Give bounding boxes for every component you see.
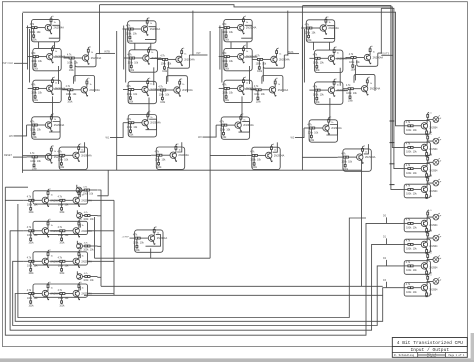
svg-text:100k: 100k (59, 273, 65, 275)
transistor register cell Q1R2 (54, 219, 92, 244)
wire: bit 3 stage D to E link (335, 90, 348, 92)
wire: register output vertical (100, 190, 102, 287)
svg-text:100k: 100k (83, 280, 89, 282)
wire: bit 0 stage A feedback loop (49, 25, 60, 38)
transistor register cell Q0R4 (hold gate) (77, 210, 98, 221)
wire: W1 vertical run (116, 31, 118, 170)
svg-text:100k: 100k (222, 60, 228, 63)
svg-text:1k: 1k (331, 122, 333, 124)
transistor inverter stage Q3B (309, 47, 347, 73)
svg-text:1k: 1k (329, 22, 331, 24)
svg-text:100k: 100k (159, 93, 165, 96)
svg-text:1k: 1k (150, 117, 152, 119)
svg-text:100k: 100k (59, 167, 65, 169)
wire: register row 0 output to bus (88, 199, 115, 201)
transistor inverter stage Q1E (155, 78, 193, 103)
junction W1 (116, 137, 117, 138)
lamp driver Q3L with indicator LP3 (stack 1 row 3) (402, 176, 441, 199)
wire: write strobe W0 into stage F (14, 125, 27, 136)
node flag stack1 row 1 (390, 142, 395, 144)
wire: bit 3 stage G output (364, 144, 369, 154)
svg-text:100k: 100k (257, 71, 263, 73)
svg-text:100k: 100k (32, 137, 38, 139)
wire: bit 1 stage G output (177, 142, 182, 152)
svg-text:1k: 1k (243, 119, 245, 121)
svg-text:100k: 100k (156, 167, 162, 169)
wire: register row 3 link (49, 293, 54, 295)
wire: bit 3 stage F loop (326, 125, 337, 136)
transistor inverter stage Q3E (343, 77, 381, 102)
svg-text:100k: 100k (128, 61, 134, 64)
svg-text:100k: 100k (127, 126, 133, 129)
svg-text:100k: 100k (27, 234, 33, 237)
transistor register cell Q2R1 (23, 250, 61, 275)
wire: bit 0 stage E output loop (74, 76, 95, 93)
svg-text:1k: 1k (81, 150, 83, 152)
wire: register row 2 output to bus (88, 260, 115, 262)
wire: bit 0 stage F to latch (52, 96, 54, 118)
transistor inverter stage Q2F (216, 114, 254, 140)
svg-text:100k: 100k (221, 137, 227, 139)
svg-text:2N2904: 2N2904 (429, 268, 438, 270)
svg-text:100k: 100k (252, 167, 258, 169)
svg-text:100k: 100k (29, 273, 35, 275)
transistor inverter stage Q1B (124, 46, 162, 72)
svg-text:100k: 100k (256, 63, 262, 66)
svg-text:100k: 100k (27, 265, 33, 268)
svg-text:100k: 100k (27, 204, 33, 207)
svg-text:100k: 100k (133, 241, 139, 244)
wire: data bus D1 loop to display row 2 (10, 231, 403, 330)
svg-text:1k: 1k (51, 195, 53, 197)
svg-text:2N2904A: 2N2904A (81, 230, 92, 233)
wire: bit 1 stage E output loop (166, 76, 187, 93)
node flag stack1 row 0 (390, 120, 395, 122)
svg-text:100k: 100k (127, 93, 133, 96)
wire: bit 0 stage B to C link (54, 56, 69, 58)
wire: bit 2 stage G input (210, 155, 247, 157)
svg-text:100k: 100k (313, 93, 319, 96)
transistor inverter stage Q2B (219, 45, 257, 71)
wire: write strobe W3 into stage F (295, 128, 304, 138)
transistor register cell Q3R1 (23, 282, 61, 307)
svg-text:W2: W2 (198, 136, 202, 139)
svg-text:100k: 100k (222, 92, 228, 95)
wire: W3 vertical run (301, 6, 303, 170)
svg-text:100k: 100k (31, 60, 37, 63)
wire: INP/CLK feed (14, 62, 28, 64)
junction W3 (302, 137, 303, 138)
wire: bit 1 stage G input (117, 154, 152, 156)
wire: register upper gate loop (97, 170, 108, 196)
svg-text:1k: 1k (54, 119, 56, 121)
svg-text:100k: 100k (406, 291, 412, 294)
transistor inverter stage Q0F (27, 113, 65, 139)
svg-text:100k: 100k (59, 243, 65, 245)
svg-text:100k: 100k (29, 243, 35, 245)
svg-text:2N2904: 2N2904 (429, 290, 438, 292)
node flag stack1 row 2 (390, 163, 395, 165)
transistor inverter stage Q3F (304, 116, 342, 142)
svg-text:100k: 100k (224, 100, 230, 102)
svg-text:Page 1 of 1: Page 1 of 1 (449, 354, 465, 357)
wire: data bus D2 loop to display row 3 (13, 261, 403, 325)
wire: bit 1 stage A to B connectors (135, 43, 151, 50)
wire: bit 2 stage D to E link (245, 88, 256, 90)
svg-text:2N2904A: 2N2904A (54, 27, 65, 30)
wire: bit 2 latch cross-coupling (250, 66, 264, 84)
svg-text:100k: 100k (58, 234, 64, 237)
svg-text:W0: W0 (9, 135, 13, 138)
wire: bit 1 stage B to C link (150, 57, 163, 59)
svg-text:100k: 100k (58, 265, 64, 268)
wire: long output bus to display row 4 (101, 285, 383, 287)
transistor inverter stage Q0G (54, 144, 92, 170)
wire: register row 2 link (49, 260, 54, 262)
wire: bit 1 stage F loop (146, 119, 157, 130)
svg-text:100k: 100k (33, 68, 39, 70)
wire: bit 2 stage B to C link (245, 56, 258, 58)
transistor inverter stage Q3C (345, 46, 383, 71)
junction bit 1 output node (192, 54, 193, 55)
title block row dividers (392, 347, 467, 353)
wire: bit 3 stage C output riser (378, 8, 382, 53)
transistor register cell Q2R4 (hold gate) (77, 271, 98, 282)
svg-text:2N2904A: 2N2904A (54, 124, 65, 127)
wire: register row 3 output run (84, 294, 383, 296)
svg-text:100k: 100k (309, 140, 315, 142)
svg-text:100k: 100k (126, 32, 132, 35)
wire: bit 2 stage C output riser (284, 11, 288, 55)
svg-text:1k: 1k (91, 52, 93, 54)
wire: register row 3 enclosure loop (33, 284, 88, 297)
wire: bit 2 stage A feedback loop (241, 25, 252, 38)
svg-text:100k: 100k (128, 101, 134, 103)
svg-text:100k: 100k (161, 63, 167, 66)
transistor register cell Q0R1 (23, 189, 61, 214)
svg-text:1k: 1k (82, 225, 84, 227)
svg-text:1k: 1k (246, 83, 248, 85)
svg-text:100k: 100k (224, 39, 230, 41)
wire: bit 0 stage C output riser (96, 5, 100, 54)
svg-text:100k: 100k (406, 227, 412, 230)
wire: D1 flag stub (386, 238, 388, 244)
wire: W0 vertical run (22, 13, 24, 173)
wire: bit 3 stage G input (302, 156, 337, 158)
wire: register row 0 upper feed (5, 187, 28, 200)
svg-text:100k: 100k (58, 297, 64, 300)
wire: register row 2 enclosure loop (33, 252, 88, 265)
wire: bit 3 stage A to B connectors (314, 42, 330, 50)
wire: bit 3 stage C output loop (357, 53, 378, 66)
scan shadow right-bottom edge (471, 333, 474, 360)
wire: strobe return loop (18, 204, 366, 318)
svg-text:100k: 100k (406, 172, 412, 175)
svg-text:100k: 100k (222, 31, 228, 34)
svg-text:100k: 100k (348, 101, 354, 103)
transistor inverter stage Q0B (28, 45, 66, 71)
transistor register cell Q0R2 (54, 189, 92, 214)
wire: bit 2 stage A to B connectors (231, 42, 247, 49)
wire: data bus D0 loop to display row 1 (5, 200, 402, 335)
svg-text:1k: 1k (151, 52, 153, 54)
junction bit 0 output node (99, 53, 100, 54)
transistor inverter stage Q1G (151, 144, 189, 170)
svg-text:1k: 1k (365, 151, 367, 153)
svg-text:100k: 100k (129, 70, 135, 72)
wire: bit 3 stage A feedback loop (324, 26, 335, 39)
svg-text:100k: 100k (346, 92, 352, 95)
svg-text:RESET: RESET (4, 154, 13, 157)
wire: BUS output stub (288, 53, 299, 55)
wire: register gate outputs (97, 190, 101, 277)
svg-text:1k: 1k (370, 83, 372, 85)
wire: bit 2 stage G output (273, 142, 278, 152)
svg-text:100k: 100k (27, 297, 33, 300)
transistor buffer cell QB1 (130, 227, 168, 253)
svg-text:100k: 100k (30, 128, 36, 131)
wire: bus line to output stack row 3 (381, 8, 402, 168)
wire: data bus D3 loop to display row 4 (15, 288, 402, 322)
wire: bit 1 latch cross-coupling (154, 67, 168, 85)
svg-text:1k: 1k (182, 84, 184, 86)
wire: bit 0 latch cross-coupling (59, 66, 76, 84)
svg-text:1k: 1k (51, 225, 53, 227)
svg-text:1k: 1k (54, 151, 56, 153)
wire: register row 3 output to bus (88, 293, 115, 295)
svg-text:1k: 1k (82, 256, 84, 258)
wire: bit 1 stage C output loop (168, 55, 189, 68)
svg-text:1k: 1k (184, 54, 186, 56)
wire: bit3 stage G output drop (361, 160, 363, 286)
svg-text:100k: 100k (69, 70, 75, 72)
svg-text:W3: W3 (291, 137, 295, 140)
svg-text:100k: 100k (29, 212, 35, 214)
lamp driver Q1M with indicator LP5 (stack 2 row 1) (402, 231, 441, 254)
svg-text:INP / CLK: INP / CLK (3, 62, 14, 65)
title block frame (392, 338, 467, 358)
svg-text:1k: 1k (90, 84, 92, 86)
junction W2 (210, 137, 211, 138)
svg-text:1k: 1k (54, 22, 56, 24)
wire: bit 3 stage F to latch (329, 98, 331, 121)
svg-text:2N2904A: 2N2904A (274, 154, 285, 157)
wire: bus line to output stack row 2 (100, 5, 403, 148)
svg-text:INTB: INTB (104, 50, 110, 54)
svg-text:100k: 100k (67, 61, 73, 64)
wire: buffer loop (146, 235, 161, 247)
wire: bit 1 stage F to latch (148, 98, 150, 117)
svg-text:100k: 100k (406, 248, 412, 251)
svg-text:100k: 100k (66, 93, 72, 96)
svg-text:1k: 1k (279, 54, 281, 56)
transistor inverter stage Q2D (219, 77, 257, 103)
wire: bit 0 stage A to B connectors (39, 42, 55, 49)
wire: bit 0 stage G input (23, 155, 55, 157)
svg-text:2N2904: 2N2904 (429, 149, 438, 151)
wire: D2 flag stub (386, 260, 388, 266)
svg-text:1k: 1k (55, 51, 57, 53)
wire: bit 2 stage F loop (239, 122, 250, 133)
svg-text:100k: 100k (160, 102, 166, 104)
transistor register cell Q0R3 (set gate) (76, 185, 97, 196)
node flag stack1 row 3 (390, 184, 395, 186)
wire: D3 flag stub (386, 282, 388, 288)
wire: bit 1 stage C output riser (189, 11, 193, 55)
svg-text:100k: 100k (406, 151, 412, 154)
svg-text:2N2904A: 2N2904A (178, 154, 189, 157)
transistor inverter stage Q0H (reset buffer) (27, 145, 65, 170)
transistor inverter stage Q1A (bit 1 latch) (123, 17, 161, 43)
lamp driver Q0L with indicator LP0 (stack 1 row 0) (402, 112, 441, 135)
svg-text:2N2904A: 2N2904A (54, 156, 65, 159)
svg-text:100k: 100k (305, 31, 311, 34)
transistor register cell Q1R4 (hold gate) (77, 241, 98, 252)
scan shadow bottom edge (0, 358, 474, 362)
lamp driver Q1L with indicator LP1 (stack 1 row 1) (402, 134, 441, 157)
svg-text:100k: 100k (31, 92, 37, 95)
svg-text:2N2904: 2N2904 (429, 225, 438, 227)
svg-text:+5 REF: +5 REF (122, 236, 130, 238)
svg-text:1k: 1k (337, 53, 339, 55)
svg-text:2N2904A: 2N2904A (328, 27, 339, 30)
transistor inverter stage Q0E (62, 78, 100, 103)
wire: bit 0 stage F loop (49, 122, 60, 133)
wire: bit 2 stage F to latch (241, 96, 243, 118)
svg-text:100k: 100k (128, 135, 134, 137)
svg-text:100k: 100k (162, 71, 168, 73)
wire: D0 flag stub (386, 217, 388, 223)
svg-text:4 Bit Transistorized CPU: 4 Bit Transistorized CPU (397, 340, 463, 346)
svg-text:2N2904A: 2N2904A (246, 27, 257, 30)
svg-text:100k: 100k (58, 159, 64, 162)
wire: write strobe W2 into stage F (203, 125, 217, 137)
svg-text:2N2904: 2N2904 (429, 246, 438, 248)
svg-text:2N2904A: 2N2904A (150, 28, 161, 31)
wire: bit 1 left feed pair (124, 26, 126, 83)
svg-text:R. Schmidling: R. Schmidling (394, 353, 415, 357)
svg-text:100k: 100k (250, 159, 256, 162)
transistor inverter stage Q2A (bit 2 latch) (219, 16, 257, 42)
transistor inverter stage Q3A (bit 3 latch) (301, 16, 339, 42)
transistor inverter stage Q0D (28, 77, 66, 103)
svg-text:1k: 1k (55, 83, 57, 85)
svg-text:100k: 100k (135, 250, 141, 252)
junction bit 2 output node (287, 54, 288, 55)
svg-text:1k: 1k (51, 288, 53, 290)
lamp driver Q2L with indicator LP2 (stack 1 row 2) (402, 155, 441, 178)
svg-text:1k: 1k (246, 22, 248, 24)
title block column dividers (418, 353, 446, 358)
svg-text:2N2904A: 2N2904A (81, 260, 92, 263)
wire: register row 0 enclosure loop (33, 191, 88, 204)
transistor inverter stage Q2G (247, 144, 285, 170)
transistor inverter stage Q1F (123, 111, 161, 137)
svg-text:1k: 1k (179, 149, 181, 151)
wire: bit 0 stage G output (80, 142, 85, 152)
wire: register output bus vertical (113, 200, 115, 295)
wire: register row 1 enclosure loop (33, 221, 88, 234)
svg-text:1k: 1k (274, 150, 276, 152)
svg-text:1k: 1k (157, 232, 159, 234)
wire: W2 vertical to lower loop (209, 31, 211, 258)
transistor inverter stage Q2E (251, 78, 289, 103)
wire: bus line to output stack row 4 (302, 6, 402, 190)
svg-text:OUT3: OUT3 (382, 52, 389, 56)
wire: register row 0 gate tie (79, 193, 81, 197)
junction W0 (22, 135, 23, 136)
svg-text:INT: INT (197, 51, 202, 55)
svg-text:100k: 100k (256, 102, 262, 104)
svg-text:100k: 100k (224, 68, 230, 70)
transistor register cell Q3R2 (54, 282, 92, 307)
svg-text:100k: 100k (406, 193, 412, 196)
wire: register row 3 gate tie (79, 286, 81, 290)
svg-text:100k: 100k (155, 159, 161, 162)
svg-text:2N2904: 2N2904 (429, 128, 438, 130)
svg-text:2N2904A: 2N2904A (150, 122, 161, 125)
svg-text:2N2904A: 2N2904A (365, 156, 376, 159)
lamp driver Q3M with indicator LP7 (stack 2 row 3) (402, 274, 441, 297)
svg-text:BUS: BUS (288, 50, 294, 54)
wire: register row 1 link (49, 230, 54, 232)
wire: register row 0 link (49, 199, 54, 201)
lamp driver Q0M with indicator LP4 (stack 2 row 0) (402, 210, 441, 233)
svg-text:1k: 1k (150, 84, 152, 86)
transistor inverter stage Q3D (309, 79, 347, 105)
svg-text:2N2904A: 2N2904A (331, 127, 342, 130)
wire: write strobe W1 into stage F (110, 123, 123, 138)
transistor inverter stage Q3G (338, 146, 376, 172)
wire: register output vertical 2 (94, 217, 96, 258)
wire: bit 3 left feed pair (302, 26, 304, 83)
svg-text:100k: 100k (313, 62, 319, 65)
svg-text:1k: 1k (373, 52, 375, 54)
svg-text:2N2904A: 2N2904A (81, 154, 92, 157)
svg-text:100k: 100k (406, 129, 412, 132)
wire: bit 3 stage B to C link (335, 58, 350, 60)
wire: bit 0 stage C output loop (75, 54, 96, 67)
wire: INTB output stub (100, 52, 116, 54)
svg-text:100k: 100k (30, 31, 36, 34)
wire: bit 1 stage A feedback loop (145, 27, 156, 40)
svg-text:100k: 100k (220, 128, 226, 131)
lamp driver Q2M with indicator LP6 (stack 2 row 2) (402, 252, 441, 275)
svg-text:W1: W1 (106, 136, 110, 139)
svg-text:100k: 100k (59, 305, 65, 307)
transistor inverter stage Q1C (157, 48, 195, 73)
svg-text:100k: 100k (315, 70, 321, 72)
svg-text:2N2904A: 2N2904A (81, 199, 92, 202)
wire: bit 1 stage D to E link (149, 89, 160, 91)
svg-text:2N2904A: 2N2904A (157, 237, 168, 240)
svg-text:100k: 100k (254, 93, 260, 96)
wire: buffer output drop (150, 248, 152, 258)
wire: register row 1 output to bus (88, 230, 115, 232)
svg-text:100k: 100k (32, 39, 38, 41)
svg-text:100k: 100k (33, 100, 39, 102)
transistor inverter stage Q1D (123, 78, 161, 104)
svg-text:2N2904A: 2N2904A (243, 124, 254, 127)
svg-text:1k: 1k (337, 84, 339, 86)
wire: bit 2 left feed pair (220, 26, 222, 83)
svg-text:100k: 100k (67, 102, 73, 104)
svg-text:8/18/02: 8/18/02 (427, 355, 437, 358)
wire: lower loop horizontal (95, 257, 211, 259)
transistor inverter stage Q0A (bit 0 latch) (26, 16, 64, 42)
svg-text:100k: 100k (349, 61, 355, 64)
transistor inverter stage Q0C (64, 46, 102, 71)
